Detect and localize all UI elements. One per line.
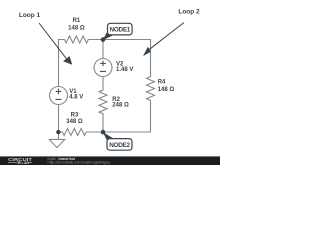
svg-text:LAB: LAB (22, 161, 30, 165)
svg-text:1.48 V: 1.48 V (116, 67, 133, 73)
svg-text:248 Ω: 248 Ω (112, 103, 129, 109)
svg-text:148 Ω: 148 Ω (68, 26, 85, 32)
svg-text:R3: R3 (71, 113, 79, 119)
svg-text:4.8 V: 4.8 V (69, 95, 83, 101)
svg-text:R1: R1 (73, 18, 81, 24)
svg-text:NODE1: NODE1 (110, 27, 131, 34)
svg-text:Loop 2: Loop 2 (178, 8, 200, 15)
svg-text:348 Ω: 348 Ω (66, 119, 83, 125)
svg-text:Loop 1: Loop 1 (19, 12, 41, 19)
svg-text:NODE2: NODE2 (109, 142, 130, 149)
svg-text:148 Ω: 148 Ω (158, 87, 175, 93)
svg-text:R4: R4 (158, 80, 166, 86)
svg-text:http://circuitlab.com/c/abrsqp: http://circuitlab.com/c/abrsqpnfdgzu (48, 160, 111, 164)
